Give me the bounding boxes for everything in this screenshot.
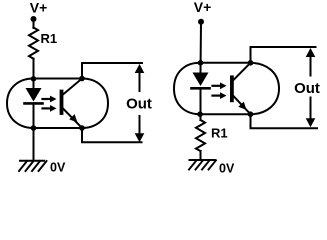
pin dot emitter (right opto bottom-right) bbox=[248, 111, 254, 117]
wire LED cathode down to ground bbox=[33, 103, 35, 160]
wire collector up and right to Out (right) bbox=[251, 47, 316, 63]
Out bracket lower arrow (right) bbox=[310, 98, 312, 124]
phototransistor Q2 emitter (right) bbox=[233, 96, 251, 115]
light arrow upper (right) bbox=[213, 85, 222, 87]
LED D1 triangle (left) bbox=[26, 88, 42, 102]
phototransistor Q2 base bar (right) bbox=[230, 77, 234, 100]
ground symbol (left) bbox=[20, 160, 44, 162]
wire LED cathode to resistor R1 (right) bbox=[200, 88, 202, 120]
phototransistor Q1 emitter (left) bbox=[63, 109, 82, 129]
pin dot collector (left opto top-right) bbox=[79, 76, 85, 82]
Out bracket upper arrow (left) bbox=[139, 68, 141, 91]
pin dot LED anode (left opto top-left) bbox=[31, 76, 37, 82]
pin dot LED cathode (left opto bottom-left) bbox=[31, 125, 37, 131]
wire emitter down and right to Out (right) bbox=[251, 114, 318, 128]
wire collector up and right to Out (left) bbox=[82, 63, 142, 79]
pin dot collector (right opto top-right) bbox=[248, 60, 254, 66]
LED D2 cathode bar (right) bbox=[192, 87, 210, 90]
light arrow upper (left) bbox=[43, 98, 52, 100]
svg-text:0V: 0V bbox=[50, 161, 66, 175]
svg-text:R1: R1 bbox=[211, 126, 228, 141]
svg-text:Out: Out bbox=[126, 96, 152, 113]
wire resistor to LED anode bbox=[33, 59, 35, 88]
opto-coupler body U1 (left) bbox=[7, 79, 108, 129]
svg-text:V+: V+ bbox=[194, 0, 212, 15]
svg-text:R1: R1 bbox=[41, 31, 58, 46]
wire V+ to resistor R1 bbox=[33, 19, 35, 28]
pin dot LED cathode (right opto bottom-left) bbox=[197, 111, 203, 117]
emitter arrowhead (left) bbox=[69, 114, 77, 122]
wire emitter down and right to Out (left) bbox=[82, 128, 142, 142]
pin dot LED anode (right opto top-left) bbox=[198, 60, 204, 66]
wire V+ to LED anode (right) bbox=[200, 22, 203, 73]
Out bracket lower arrow (left) bbox=[139, 116, 141, 138]
opto-coupler body U2 (right) bbox=[174, 63, 279, 114]
phototransistor Q1 collector (left) bbox=[63, 79, 82, 95]
pin dot emitter (left opto bottom-right) bbox=[79, 125, 85, 131]
svg-text:Out: Out bbox=[294, 80, 320, 97]
phototransistor Q1 base bar (left) bbox=[60, 92, 64, 114]
phototransistor Q2 collector (right) bbox=[233, 63, 251, 81]
light arrow lower (left) bbox=[43, 107, 52, 109]
Out bracket upper arrow (right) bbox=[310, 52, 312, 76]
resistor R1 (left) zigzag bbox=[29, 28, 38, 59]
ground symbol (right) bbox=[190, 159, 215, 161]
LED D1 cathode bar (left) bbox=[25, 102, 43, 105]
emitter arrowhead (right) bbox=[238, 102, 246, 110]
svg-text:0V: 0V bbox=[219, 162, 235, 176]
node V+ terminal dot (right) bbox=[198, 19, 204, 25]
wire resistor to ground (right) bbox=[200, 151, 202, 160]
light arrow lower (right) bbox=[213, 94, 222, 96]
LED D2 triangle (right) bbox=[193, 73, 209, 87]
svg-text:V+: V+ bbox=[30, 0, 48, 16]
resistor R1 (right) zigzag bbox=[196, 120, 205, 151]
node V+ terminal dot (left) bbox=[31, 16, 37, 22]
